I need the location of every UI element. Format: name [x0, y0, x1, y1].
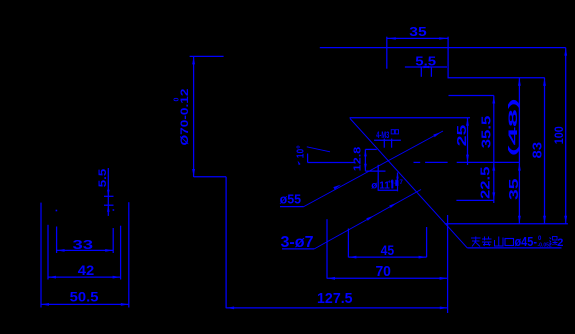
svg-text:42: 42	[78, 262, 95, 278]
svg-text:100: 100	[552, 126, 566, 144]
svg-text:Ø70-0.12: Ø70-0.12	[179, 89, 191, 146]
svg-text:50.5: 50.5	[70, 289, 99, 305]
svg-text:10°: 10°	[296, 145, 307, 158]
svg-text:35.5: 35.5	[479, 116, 494, 149]
svg-text:(48): (48)	[506, 98, 520, 156]
svg-text:127.5: 127.5	[317, 290, 353, 307]
svg-text:35: 35	[409, 25, 426, 39]
svg-text:4-М3: 4-М3	[376, 130, 389, 141]
svg-text:22.5: 22.5	[478, 167, 493, 200]
svg-text:33: 33	[73, 237, 94, 252]
svg-text:70: 70	[375, 264, 391, 280]
svg-text:25: 25	[454, 125, 469, 147]
svg-text:45: 45	[381, 242, 395, 258]
svg-text:5.5: 5.5	[97, 169, 109, 188]
svg-text:0: 0	[174, 97, 181, 101]
svg-text:ø55: ø55	[280, 193, 302, 207]
svg-text:-0.052: -0.052	[538, 243, 552, 249]
svg-text:2: 2	[557, 237, 563, 249]
svg-text:83: 83	[530, 142, 545, 159]
svg-text:ø: ø	[371, 180, 378, 191]
svg-text:35: 35	[506, 178, 521, 200]
svg-text:12.8: 12.8	[352, 146, 363, 171]
svg-text:5.5: 5.5	[415, 54, 436, 68]
svg-text:ø45-: ø45-	[515, 234, 538, 249]
